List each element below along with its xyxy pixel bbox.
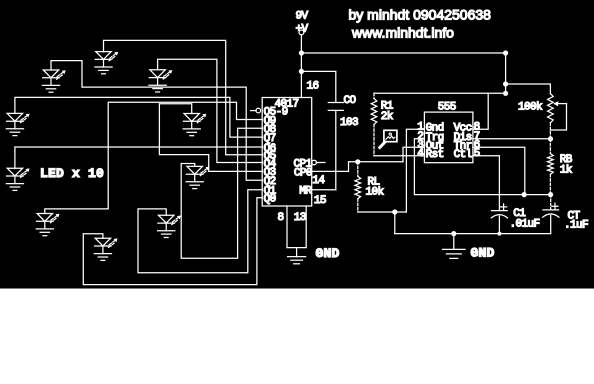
capacitor CO plates bbox=[328, 103, 343, 111]
wire Q0 route bbox=[83, 198, 262, 285]
ground 555 gnd bbox=[443, 249, 466, 258]
junction out/cp0/rl bbox=[355, 159, 360, 164]
svg-text:LED x 10: LED x 10 bbox=[40, 166, 104, 181]
junction gnd tap bbox=[451, 231, 456, 236]
svg-text:Ctl: Ctl bbox=[454, 149, 472, 161]
svg-text:1k: 1k bbox=[560, 164, 573, 176]
wire pin6 Thr bbox=[473, 147, 525, 194]
svg-text:100k: 100k bbox=[518, 102, 543, 114]
junction +V CO bbox=[299, 69, 304, 74]
svg-text:10k: 10k bbox=[366, 186, 385, 198]
wire Q1 route bbox=[138, 190, 262, 273]
LED D3 bbox=[149, 70, 172, 92]
LED D2 bbox=[42, 70, 65, 92]
resistor RL top lead bbox=[357, 162, 359, 177]
svg-text:CO: CO bbox=[344, 95, 357, 107]
wire pin7 Dis bbox=[473, 138, 551, 140]
schematic background bbox=[0, 0, 594, 289]
LED D4 bbox=[6, 113, 29, 135]
wire +V top rail bbox=[301, 52, 505, 54]
wire pin1 Gnd bbox=[406, 129, 424, 212]
svg-text:by minhdt 0904250638: by minhdt 0904250638 bbox=[349, 7, 492, 23]
LED D10 bbox=[94, 238, 117, 260]
resistor RB bottom lead bbox=[549, 174, 551, 194]
svg-text:CP0: CP0 bbox=[294, 167, 312, 179]
pin MR stub bbox=[312, 189, 336, 191]
wire Q5 route bbox=[104, 40, 263, 154]
resistor R1 bottom lead bbox=[373, 125, 375, 156]
svg-text:14: 14 bbox=[312, 175, 325, 187]
LED D1 bbox=[95, 52, 118, 74]
svg-text:.01uF: .01uF bbox=[510, 219, 540, 231]
LED D6 bbox=[6, 168, 29, 190]
svg-text:GND: GND bbox=[316, 246, 340, 261]
capacitor C1 bbox=[491, 204, 507, 234]
wire pin2 Trg bbox=[414, 139, 550, 195]
ground 4017 gnd bbox=[288, 257, 306, 264]
junction +V to pot bbox=[503, 81, 508, 86]
wire +V vertical bbox=[300, 35, 302, 98]
wire Q2 route bbox=[51, 61, 262, 181]
wire +V to 100k bbox=[506, 84, 551, 94]
svg-text:2k: 2k bbox=[381, 111, 394, 123]
resistor RL 10k bbox=[355, 176, 361, 198]
capacitor CT bbox=[543, 195, 559, 234]
svg-text:555: 555 bbox=[438, 101, 456, 113]
LED D8 bbox=[36, 214, 59, 236]
wire Q8 route bbox=[181, 128, 262, 258]
junction c1 bottom bbox=[497, 232, 501, 236]
wire gnd drop bbox=[394, 212, 396, 234]
pot wiper arrow bbox=[556, 103, 567, 105]
wire RL to gnd rail bbox=[358, 211, 407, 213]
svg-text:8: 8 bbox=[278, 212, 284, 224]
LED D5 bbox=[183, 114, 206, 136]
pot bottom lead bbox=[549, 123, 551, 139]
broken-image icon bbox=[380, 130, 397, 147]
wire Q3 route bbox=[159, 104, 262, 172]
wire pin8 Vcc bbox=[473, 93, 488, 129]
svg-text:www.minhdt.info: www.minhdt.info bbox=[351, 24, 454, 40]
junction thr/trg A bbox=[522, 192, 527, 197]
terminal +V bbox=[299, 30, 304, 35]
junction gnd rail bbox=[392, 209, 397, 214]
junction dis/pot/rb bbox=[548, 136, 553, 141]
wire pin5 Ctl bbox=[473, 156, 500, 211]
svg-text:15: 15 bbox=[314, 195, 326, 207]
resistor RB 1k bbox=[548, 154, 554, 175]
IC U1 4017 box bbox=[262, 98, 312, 207]
resistor RB top lead bbox=[549, 139, 551, 154]
resistor 100k pot bbox=[548, 94, 554, 123]
resistor R1 2k bbox=[371, 99, 377, 125]
wire +V to CO bbox=[301, 71, 335, 102]
junction +V rail A bbox=[299, 50, 304, 55]
svg-text:103: 103 bbox=[340, 117, 358, 129]
ground stem 555 bbox=[453, 234, 455, 250]
pin CP1 stub bbox=[316, 162, 325, 164]
capacitor CO lower lead to MR bbox=[335, 110, 337, 189]
svg-text:MR: MR bbox=[299, 186, 312, 198]
pin CP0 route bbox=[312, 162, 403, 172]
pin 8 13 ground drop bbox=[287, 206, 306, 248]
junction trg/ct bbox=[548, 192, 553, 197]
svg-text:13: 13 bbox=[294, 212, 306, 224]
svg-text:5: 5 bbox=[474, 148, 480, 160]
svg-text:.1uF: .1uF bbox=[564, 220, 588, 232]
svg-text:16: 16 bbox=[307, 81, 319, 93]
resistor RL bottom lead bbox=[357, 199, 359, 212]
pin CP1 bubble bbox=[312, 160, 317, 165]
resistor R1 top lead bbox=[373, 93, 375, 98]
wire Q9 route bbox=[45, 102, 262, 213]
junction +V r1 rail bbox=[503, 91, 508, 96]
wire bottom rail bbox=[395, 233, 551, 235]
LED D9 bbox=[158, 215, 181, 237]
wire +V r1 rail bbox=[374, 92, 506, 94]
svg-text:9V: 9V bbox=[296, 11, 309, 23]
pot wiper loop bbox=[550, 104, 566, 130]
svg-text:Rst: Rst bbox=[426, 149, 444, 161]
wire Q7 route bbox=[15, 97, 262, 137]
pin Q5-9 stub bbox=[251, 110, 256, 112]
svg-text:Q0: Q0 bbox=[264, 194, 276, 206]
ground stem 4017 bbox=[296, 248, 298, 257]
pin Q5-9 bubble bbox=[256, 108, 261, 113]
svg-text:GND: GND bbox=[471, 246, 495, 261]
wire Q6 route bbox=[15, 147, 262, 168]
IC U2 555 box bbox=[424, 112, 473, 163]
wire pin3 Out bbox=[403, 147, 424, 162]
wire Q4 route bbox=[158, 59, 263, 162]
wire +V right drop bbox=[505, 53, 507, 93]
wire R1 to Rst pin4 bbox=[374, 155, 424, 157]
svg-text:4: 4 bbox=[417, 148, 424, 160]
LED D7 bbox=[186, 166, 209, 188]
junction +V rail corner bbox=[503, 50, 508, 55]
